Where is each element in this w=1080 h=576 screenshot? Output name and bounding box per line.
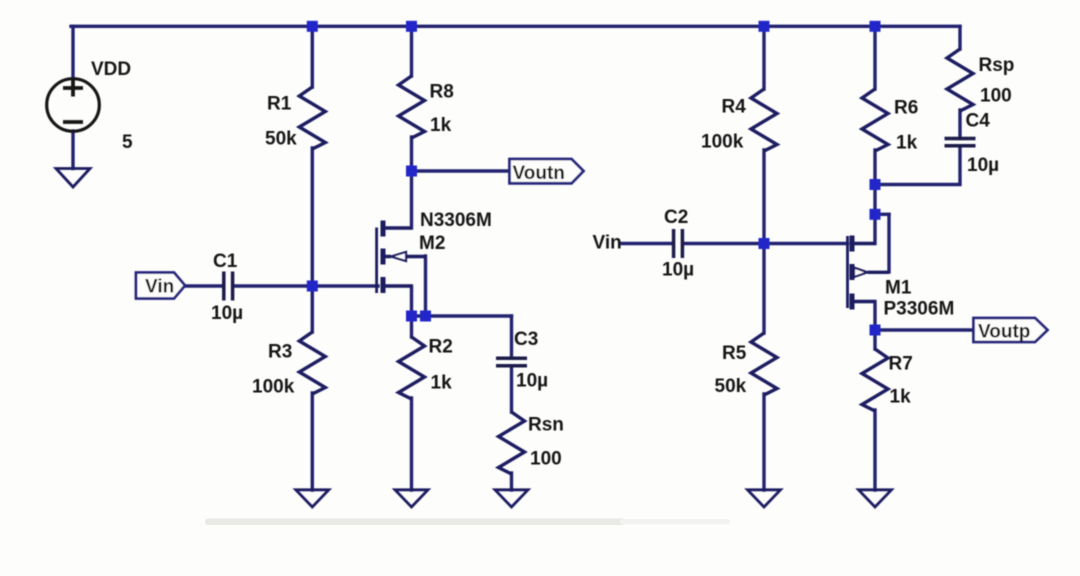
svg-text:1k: 1k [431,373,453,394]
svg-text:10µ: 10µ [967,155,999,176]
svg-text:R3: R3 [268,342,292,363]
svg-text:100: 100 [530,449,562,470]
svg-text:R6: R6 [894,98,918,119]
svg-text:10µ: 10µ [662,260,694,281]
svg-text:1k: 1k [896,133,918,154]
svg-text:N3306M: N3306M [420,210,492,231]
svg-text:R1: R1 [267,94,292,115]
svg-text:P3306M: P3306M [884,299,955,320]
svg-text:Rsn: Rsn [528,415,564,436]
svg-text:10µ: 10µ [211,303,243,324]
svg-text:C1: C1 [213,251,238,272]
svg-text:R7: R7 [889,354,913,375]
svg-text:C2: C2 [664,207,688,228]
svg-text:50k: 50k [265,129,297,150]
svg-text:100: 100 [980,86,1012,107]
svg-text:R2: R2 [429,337,453,358]
svg-text:Voutn: Voutn [513,163,565,184]
svg-text:Vin: Vin [593,233,622,254]
svg-text:Voutp: Voutp [978,322,1030,343]
svg-text:50k: 50k [715,376,747,397]
svg-text:M2: M2 [419,233,445,254]
svg-text:R8: R8 [430,82,454,103]
svg-text:1k: 1k [430,115,452,136]
svg-text:10µ: 10µ [516,371,548,392]
svg-text:C3: C3 [514,329,538,350]
svg-text:Vin: Vin [145,277,174,298]
svg-text:VDD: VDD [91,59,131,80]
svg-text:R5: R5 [722,343,747,364]
svg-text:100k: 100k [252,377,295,398]
svg-text:1k: 1k [890,387,912,408]
svg-text:Rsp: Rsp [979,55,1015,76]
svg-text:C4: C4 [966,111,991,132]
svg-text:5: 5 [122,132,133,153]
svg-text:R4: R4 [722,97,747,118]
svg-text:100k: 100k [701,132,744,153]
svg-text:M1: M1 [885,278,912,299]
